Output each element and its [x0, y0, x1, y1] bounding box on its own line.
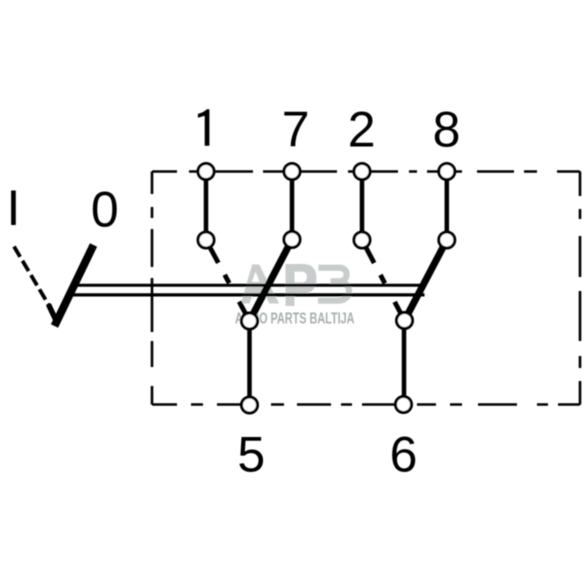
svg-text:8: 8 — [433, 102, 461, 158]
watermark APB logo — [241, 264, 317, 306]
terminal 5 stem — [247, 321, 252, 405]
terminal 7 stem — [290, 172, 295, 240]
contact pivot circle 1 — [198, 232, 214, 248]
terminal 2 stem — [360, 172, 365, 241]
contact pivot circle 2 — [354, 232, 370, 248]
actuator lever position 0 (solid) — [49, 245, 94, 326]
svg-text:I: I — [7, 180, 21, 236]
terminal 6 bottom circle — [396, 397, 412, 413]
terminal 8 top circle — [439, 164, 455, 180]
terminal 6 stem — [402, 321, 407, 405]
closed contact bridge 8-6 — [405, 240, 447, 321]
terminal 1 stem — [204, 172, 209, 241]
terminal 1 top circle — [198, 164, 214, 180]
terminal 5 upper circle — [242, 313, 258, 329]
svg-text:2: 2 — [348, 102, 376, 158]
terminal 8 stem — [445, 172, 450, 241]
svg-text:0: 0 — [91, 182, 119, 238]
svg-text:6: 6 — [390, 427, 418, 483]
enclosure dash-dot border bottom — [152, 403, 580, 406]
closed contact bridge 7-5 — [250, 240, 293, 322]
label 1 — [198, 109, 210, 146]
contact pivot circle 8 — [439, 232, 455, 248]
mechanical linkage double line — [67, 285, 425, 295]
svg-text:5: 5 — [237, 427, 265, 483]
terminal 5 bottom circle — [242, 397, 258, 413]
svg-text:7: 7 — [282, 102, 310, 158]
enclosure dash-dot border right — [579, 172, 582, 405]
enclosure dash-dot border top — [152, 170, 580, 173]
open contact path 1-5 (dashed) — [206, 240, 250, 321]
open contact path 2-6 (dashed) — [362, 240, 405, 321]
contact pivot circle 7 — [284, 232, 300, 248]
enclosure dash-dot border left — [151, 172, 154, 405]
terminal 6 upper circle — [397, 313, 413, 329]
terminal 7 top circle — [284, 164, 300, 180]
terminal 2 top circle — [354, 164, 370, 180]
actuator lever position I (dashed) — [14, 247, 52, 311]
